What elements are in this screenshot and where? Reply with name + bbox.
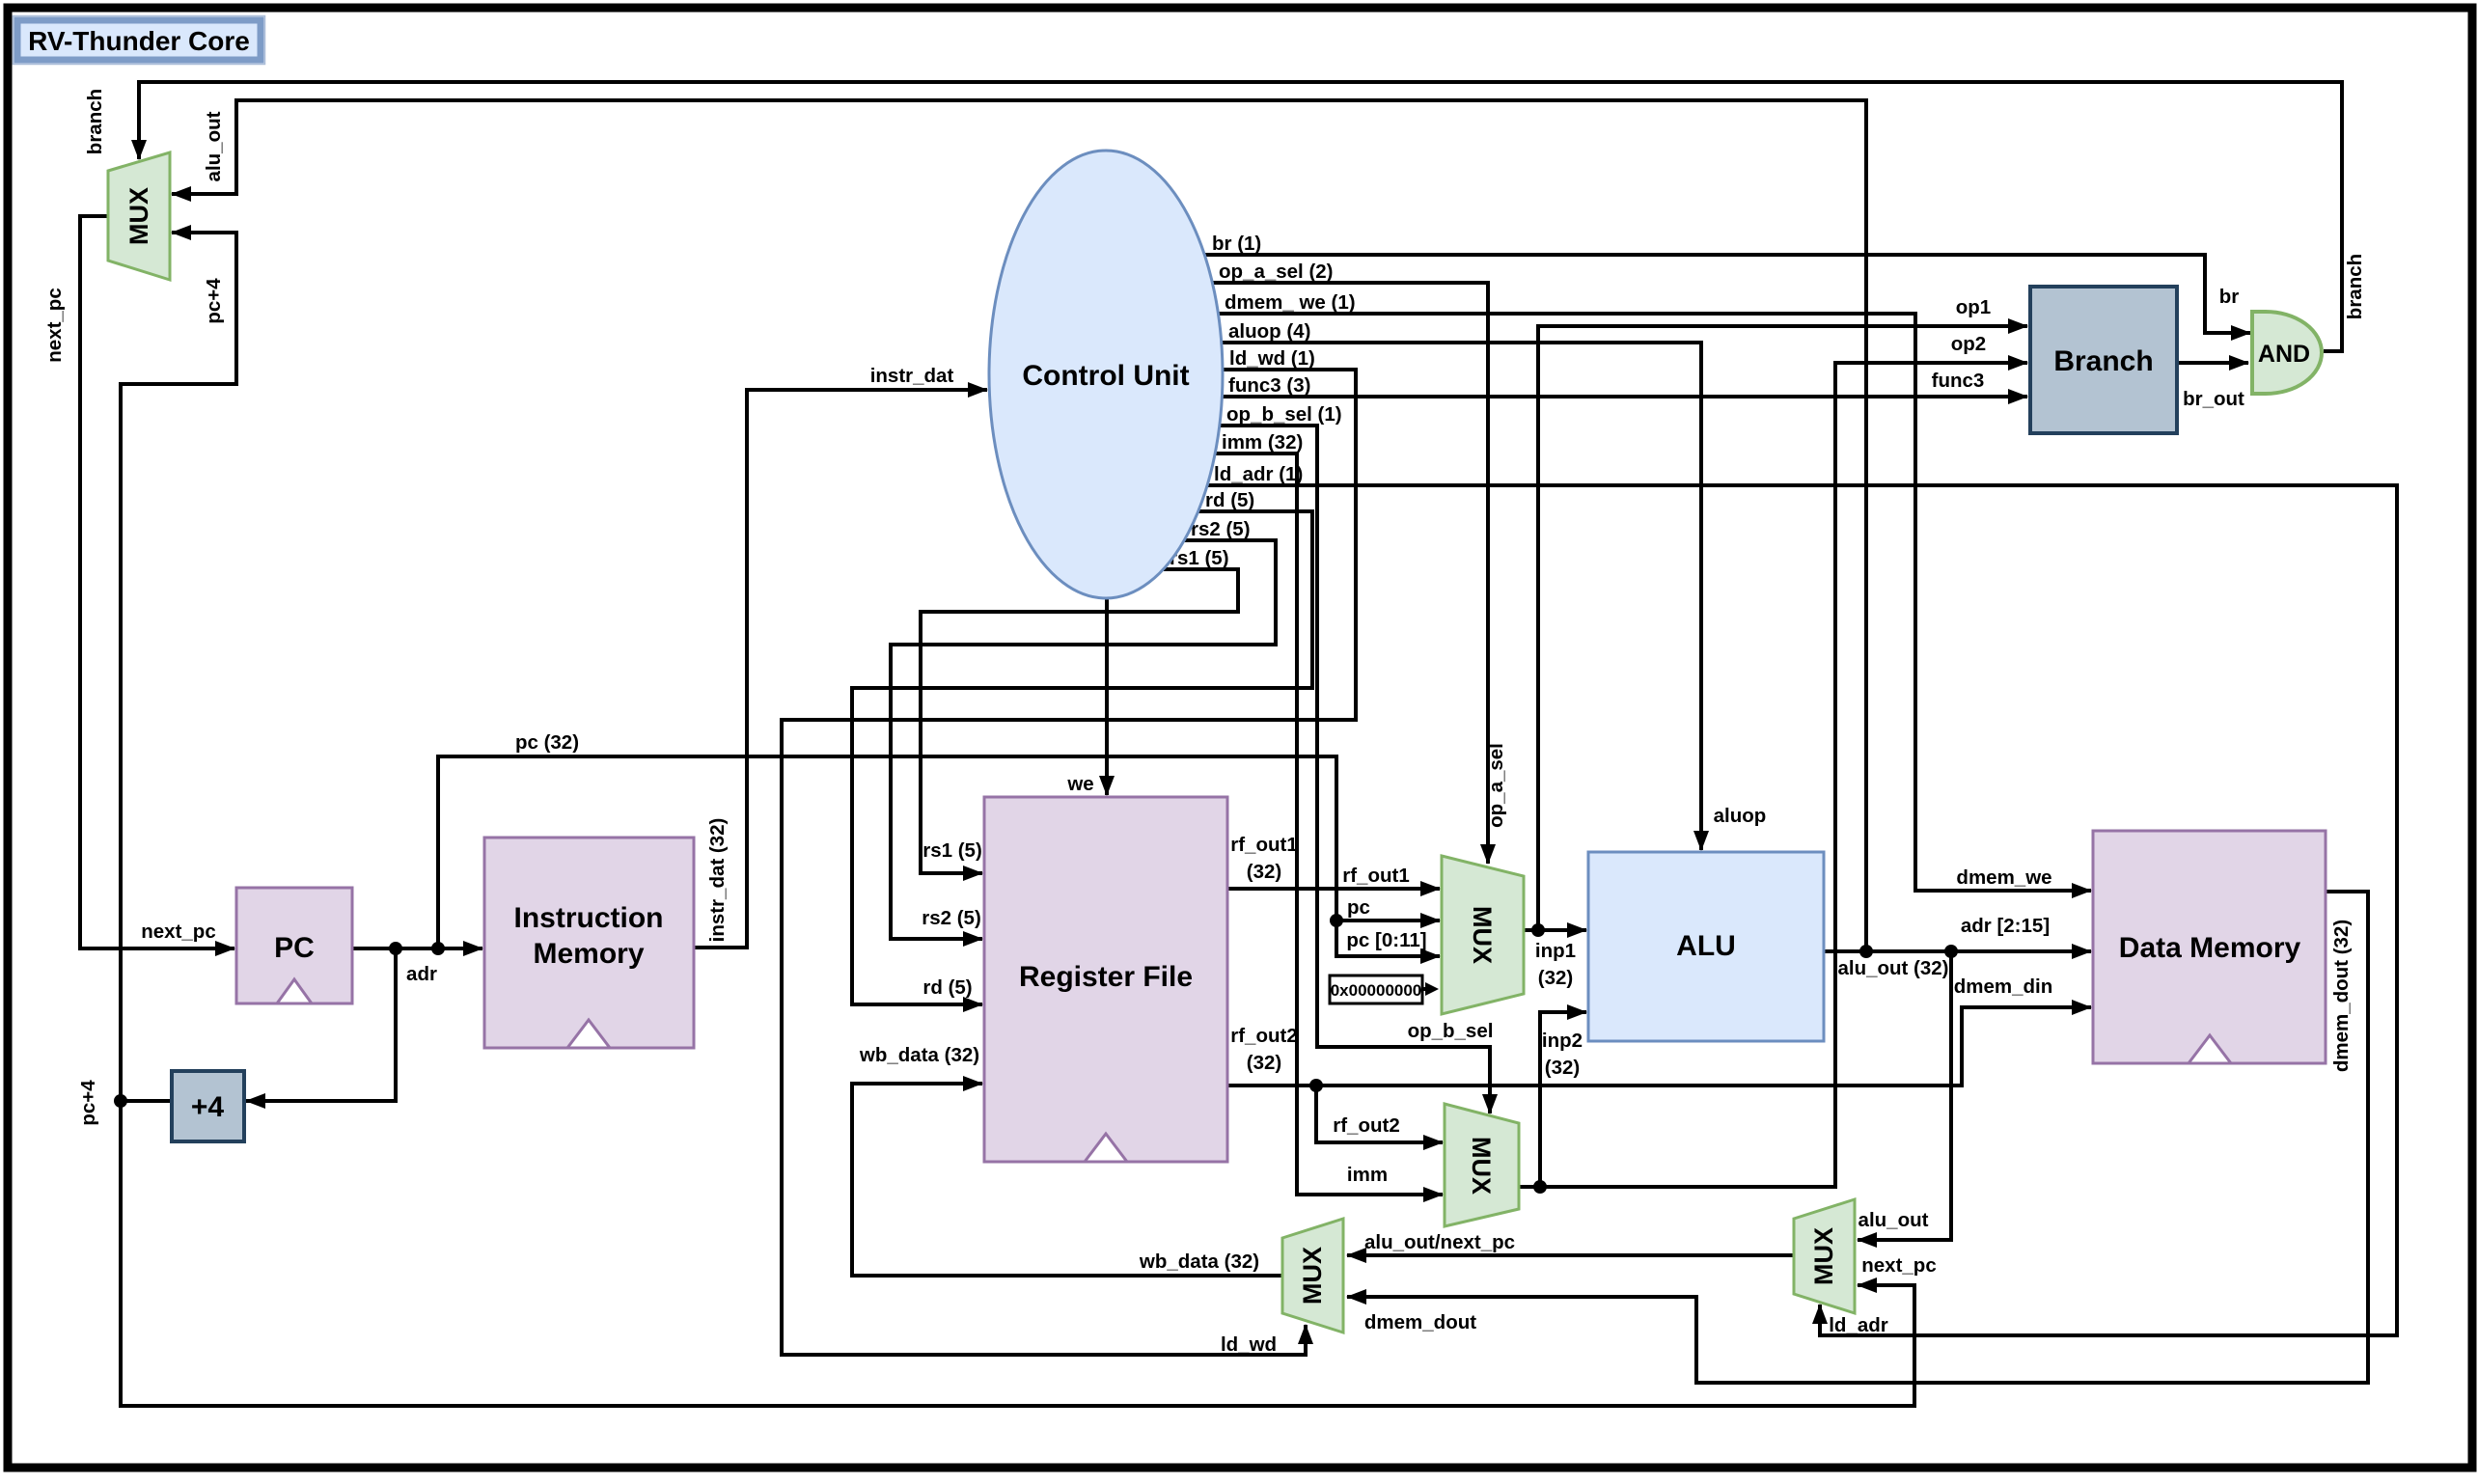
wire inp1 (MUX A out to ALU) [1524, 928, 1586, 932]
svg-text:op_b_sel (1): op_b_sel (1) [1226, 403, 1342, 426]
svg-text:ld_wd: ld_wd [1221, 1333, 1277, 1356]
wire Branch out to AND [2177, 361, 2248, 365]
wire op1 from inp1 node to Branch [1538, 326, 2027, 930]
svg-text:aluop (4): aluop (4) [1228, 320, 1310, 343]
svg-text:next_pc: next_pc [1861, 1254, 1936, 1277]
title box RV-Thunder Core [14, 16, 265, 65]
svg-text:dmem_we: dmem_we [1956, 866, 2051, 889]
wire ld_wd from CU to WB mux select [782, 370, 1356, 1355]
svg-text:op1: op1 [1956, 296, 1991, 318]
wire next_pc (MUX1 out to PC) [80, 216, 234, 948]
svg-text:op_b_sel: op_b_sel [1408, 1020, 1494, 1042]
mux MUX A (op_a select) [1442, 856, 1524, 1014]
svg-text:alu_out: alu_out [203, 111, 225, 181]
svg-text:ld_adr: ld_adr [1829, 1314, 1888, 1336]
wire aluop from CU to ALU [1222, 343, 1701, 850]
svg-text:branch: branch [84, 89, 106, 154]
wire br (1) from CU to AND [1204, 255, 2250, 333]
svg-text:rs1 (5): rs1 (5) [922, 839, 982, 862]
wire dmem_dout from Data Memory to WB mux [1347, 892, 2368, 1383]
wire func3 from CU to Branch [1222, 395, 2027, 398]
wire rs2 from CU to Register File [891, 540, 1276, 939]
svg-text:dmem_dout (32): dmem_dout (32) [2330, 920, 2353, 1072]
svg-text:MUX: MUX [1467, 1137, 1496, 1195]
svg-text:MUX: MUX [1809, 1227, 1838, 1285]
svg-text:we: we [1066, 773, 1093, 795]
svg-text:pc+4: pc+4 [203, 278, 225, 324]
svg-text:op_a_sel (2): op_a_sel (2) [1219, 261, 1334, 283]
svg-text:ld_wd (1): ld_wd (1) [1229, 347, 1315, 370]
mux MUX1 (next_pc select) [108, 152, 170, 280]
wire wb_data from WB mux to Register File [852, 1084, 1282, 1276]
svg-text:(32): (32) [1538, 967, 1573, 989]
svg-text:RV-Thunder Core: RV-Thunder Core [28, 26, 250, 56]
svg-text:aluop: aluop [1714, 805, 1767, 827]
mux WB (writeback select) [1282, 1219, 1343, 1333]
svg-text:+4: +4 [191, 1091, 225, 1123]
wire dmem_we from CU to Data Memory [1218, 314, 2091, 891]
svg-text:rs2 (5): rs2 (5) [922, 907, 981, 929]
mux LD (ld_adr select) [1794, 1199, 1855, 1313]
svg-text:wb_data (32): wb_data (32) [859, 1044, 979, 1066]
control unit U_CTRL [989, 151, 1223, 598]
svg-text:alu_out: alu_out [1858, 1209, 1929, 1231]
wire imm from CU to MUX B [1215, 453, 1443, 1195]
wire +4 output to pc+4 node [121, 1099, 172, 1103]
svg-text:op2: op2 [1951, 333, 1986, 355]
svg-text:br_out: br_out [2183, 388, 2244, 410]
svg-text:pc [0:11]: pc [0:11] [1346, 929, 1426, 951]
svg-text:alu_out/next_pc: alu_out/next_pc [1364, 1231, 1515, 1253]
svg-text:rd (5): rd (5) [1205, 489, 1254, 511]
wire alu_out feedback to MUX1 [172, 100, 1866, 951]
svg-text:rf_out2: rf_out2 [1230, 1025, 1297, 1047]
junction node on adr wire (to pc 32) [431, 942, 445, 955]
svg-text:pc+4: pc+4 [77, 1080, 99, 1126]
AND gate [2252, 312, 2322, 394]
junction node alu_out to LD mux [1944, 945, 1958, 958]
svg-text:wb_data (32): wb_data (32) [1139, 1250, 1259, 1273]
svg-text:Register File: Register File [1019, 961, 1193, 993]
register file RF [984, 797, 1227, 1162]
ALU [1588, 852, 1824, 1041]
wire pc [0:11] branch into MUX A [1336, 921, 1440, 956]
wire pc+4 along bottom to LD mux next_pc input [121, 1101, 1914, 1406]
branch comparator [2030, 287, 2177, 433]
svg-text:MUX: MUX [1298, 1247, 1327, 1305]
constant 0x00000000 box [1330, 976, 1422, 1003]
svg-text:br: br [2219, 286, 2240, 308]
svg-text:rs2 (5): rs2 (5) [1191, 518, 1251, 540]
+4 adder [172, 1071, 244, 1141]
svg-text:Instruction: Instruction [514, 902, 664, 934]
svg-text:ALU: ALU [1676, 930, 1736, 962]
junction node inp2/op2 [1533, 1180, 1547, 1194]
wire rf_out2 branch into MUX B [1316, 1086, 1443, 1142]
svg-text:pc (32): pc (32) [515, 731, 579, 754]
svg-text:ld_adr (1): ld_adr (1) [1214, 463, 1303, 485]
wire LD mux out to WB mux (alu_out/next_pc) [1347, 1253, 1794, 1257]
data memory DMEM [2093, 831, 2326, 1063]
svg-text:inp2: inp2 [1542, 1030, 1583, 1052]
svg-text:rf_out1: rf_out1 [1230, 834, 1297, 856]
svg-text:next_pc: next_pc [43, 288, 66, 362]
svg-text:func3: func3 [1932, 370, 1985, 392]
wire rf_out1 from RF to MUX A [1227, 887, 1440, 891]
svg-text:0x00000000: 0x00000000 [1331, 981, 1422, 1000]
svg-text:pc: pc [1347, 896, 1370, 919]
wire rf_out2 from RF to dmem_din of Data Memory [1227, 1007, 2091, 1086]
svg-text:imm (32): imm (32) [1222, 431, 1303, 453]
junction node rf_out2 split [1309, 1079, 1323, 1092]
svg-text:AND: AND [2258, 341, 2310, 368]
wire constant to MUX A [1422, 987, 1425, 991]
svg-text:PC: PC [274, 932, 315, 964]
svg-text:dmem_din: dmem_din [1954, 976, 2053, 998]
wire instr_dat from IM to Control Unit [694, 390, 987, 948]
wire pc out / adr to Instruction Memory [352, 947, 482, 950]
svg-text:instr_dat: instr_dat [870, 365, 954, 387]
mux MUX B (op_b select) [1445, 1104, 1519, 1226]
svg-text:MUX: MUX [1468, 906, 1497, 964]
wire op_b_sel from CU to MUX B select [1220, 426, 1490, 1113]
wire ld_adr from CU to LD mux select [1207, 485, 2397, 1335]
junction node on adr wire (to +4) [389, 942, 402, 955]
wire inp2 branch from MUX B out node to ALU [1540, 1012, 1586, 1187]
wire rs1 from CU to Register File [921, 569, 1238, 873]
svg-text:Data Memory: Data Memory [2119, 932, 2301, 964]
svg-text:MUX: MUX [124, 187, 153, 245]
svg-text:imm: imm [1347, 1164, 1388, 1186]
wire op_a_sel from CU to MUX A select [1212, 283, 1488, 864]
svg-text:Branch: Branch [2053, 345, 2153, 377]
wire to +4 input [246, 948, 396, 1101]
svg-text:op_a_sel: op_a_sel [1485, 743, 1507, 828]
svg-text:adr: adr [406, 963, 437, 985]
wire pc (32) from adr node to MUX A pc input [438, 756, 1440, 948]
junction node pc split [1330, 914, 1343, 927]
svg-text:adr [2:15]: adr [2:15] [1961, 915, 2050, 937]
junction node inp1/op1 [1531, 923, 1545, 937]
svg-text:inp1: inp1 [1535, 940, 1576, 962]
svg-text:func3 (3): func3 (3) [1228, 374, 1310, 397]
svg-text:(32): (32) [1545, 1057, 1580, 1079]
PC register [236, 888, 352, 1003]
svg-text:rd (5): rd (5) [922, 976, 972, 999]
svg-text:instr_dat (32): instr_dat (32) [706, 818, 729, 943]
svg-text:(32): (32) [1247, 1052, 1281, 1074]
svg-text:branch: branch [2344, 254, 2366, 319]
wire we from CU to Register File [1105, 598, 1109, 795]
wire rd from CU to Register File [852, 511, 1312, 1004]
svg-text:(32): (32) [1247, 861, 1281, 883]
svg-text:next_pc: next_pc [141, 921, 215, 943]
svg-text:br (1): br (1) [1212, 233, 1261, 255]
svg-text:dmem_dout: dmem_dout [1364, 1311, 1476, 1333]
svg-text:rf_out2: rf_out2 [1333, 1114, 1399, 1137]
svg-text:alu_out (32): alu_out (32) [1837, 957, 1948, 979]
wire MUX B out to op2 of Branch [1519, 363, 2027, 1187]
wire pc+4 to MUX1 [121, 233, 236, 1101]
svg-text:Memory: Memory [533, 938, 644, 970]
svg-text:rf_out1: rf_out1 [1342, 865, 1409, 887]
svg-text:dmem_ we (1): dmem_ we (1) [1225, 291, 1356, 314]
instruction memory IMEM [484, 838, 694, 1048]
wire alu_out to Data Memory adr [1824, 949, 2091, 953]
wire alu_out down to LD mux [1858, 951, 1951, 1240]
junction node pc+4 [114, 1094, 127, 1108]
junction node alu_out feedback [1859, 945, 1873, 958]
wire branch feedback (AND out to MUX1 select) [139, 82, 2342, 351]
svg-text:Control Unit: Control Unit [1022, 360, 1189, 392]
